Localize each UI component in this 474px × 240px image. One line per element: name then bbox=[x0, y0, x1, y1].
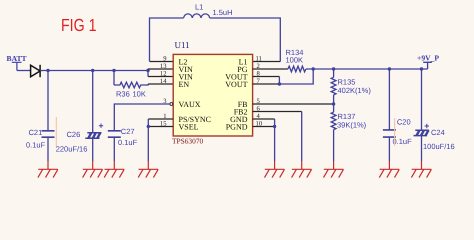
svg-text:100uF/16: 100uF/16 bbox=[423, 142, 455, 151]
node junction VOUT riser bbox=[312, 67, 315, 70]
U11 pin numbers right bbox=[256, 55, 263, 127]
wire VIN vertical pins 13-12 bbox=[147, 69, 149, 77]
wire pin3 VAUX to C27 bbox=[114, 104, 170, 131]
svg-text:C20: C20 bbox=[397, 117, 411, 126]
wire pin5 stub bbox=[253, 103, 334, 105]
wire pin8 stub bbox=[253, 76, 280, 78]
faint pink line bbox=[55, 117, 57, 147]
svg-text:39K(1%): 39K(1%) bbox=[337, 120, 367, 129]
wire VOUT joins bbox=[279, 69, 313, 84]
pin 3 bubble bbox=[170, 103, 173, 106]
svg-text:VSEL: VSEL bbox=[179, 122, 199, 131]
U11 pin names right bbox=[225, 57, 247, 131]
svg-text:U11: U11 bbox=[175, 40, 190, 50]
ground R137 bbox=[324, 161, 344, 178]
wire pin11 stub bbox=[253, 61, 281, 63]
node junction C21 bbox=[46, 69, 49, 72]
svg-text:VAUX: VAUX bbox=[179, 100, 201, 109]
ground C26 bbox=[83, 161, 103, 178]
net BATT off-page connector bbox=[7, 54, 27, 71]
ground FB2 bbox=[292, 161, 312, 178]
svg-text:C26: C26 bbox=[67, 130, 81, 139]
svg-text:+9V_P: +9V_P bbox=[417, 53, 439, 62]
node junction pin7 bbox=[278, 82, 281, 85]
node junction C24 bbox=[420, 67, 423, 70]
capacitor C20 bbox=[383, 69, 412, 161]
wire pin1 stub bbox=[148, 118, 173, 120]
wire FB2 to ground bbox=[301, 112, 303, 162]
wire pin9 stub bbox=[150, 61, 174, 63]
svg-text:0.1uF: 0.1uF bbox=[393, 137, 413, 146]
svg-text:402K(1%): 402K(1%) bbox=[338, 86, 372, 95]
svg-text:EN: EN bbox=[179, 80, 190, 89]
wire output rail bbox=[306, 68, 428, 70]
capacitor C27 bbox=[108, 127, 138, 161]
svg-text:13: 13 bbox=[160, 63, 167, 70]
node junction R36 bbox=[112, 69, 115, 72]
ground VSEL bbox=[138, 161, 158, 178]
node junction R135 bbox=[332, 67, 335, 70]
ground symbols bbox=[38, 161, 432, 178]
power +9V_P bbox=[417, 53, 439, 69]
svg-text:C27: C27 bbox=[121, 127, 135, 136]
wire pin14 stub bbox=[148, 83, 173, 85]
resistor R134 bbox=[253, 48, 306, 72]
resistor R36 bbox=[114, 71, 148, 99]
svg-text:C21: C21 bbox=[29, 128, 43, 137]
svg-text:11: 11 bbox=[256, 55, 262, 62]
svg-text:0.1uF: 0.1uF bbox=[118, 138, 138, 147]
svg-text:PGND: PGND bbox=[226, 122, 248, 131]
wire pin12 stub bbox=[148, 76, 173, 78]
wire pin13 stub bbox=[148, 68, 173, 70]
svg-text:0.1uF: 0.1uF bbox=[26, 140, 46, 149]
node junction C20 bbox=[388, 67, 391, 70]
wire pin15 stub bbox=[148, 126, 173, 128]
wire pin7 stub bbox=[253, 83, 280, 85]
svg-text:FIG 1: FIG 1 bbox=[61, 15, 97, 35]
wire pin10 stub bbox=[253, 126, 275, 128]
node junction FB bbox=[332, 102, 335, 105]
ground GND bbox=[265, 161, 285, 178]
ground C27 bbox=[104, 161, 124, 178]
node junction VIN bbox=[146, 69, 149, 72]
svg-text:C24: C24 bbox=[431, 128, 445, 137]
node junction pin10 bbox=[273, 125, 276, 128]
wire BATT to diode bbox=[17, 70, 31, 72]
svg-text:10K: 10K bbox=[133, 90, 146, 99]
wire pin6 stub bbox=[253, 111, 302, 113]
resistor R135 bbox=[331, 69, 371, 104]
wire PS/SYNC VSEL to ground bbox=[147, 119, 149, 161]
U11 pin names left bbox=[179, 57, 211, 131]
capacitor C26 electrolytic bbox=[56, 71, 103, 162]
svg-text:L1: L1 bbox=[195, 3, 203, 12]
U11 pin numbers left bbox=[160, 55, 167, 127]
svg-text:100K: 100K bbox=[286, 56, 304, 65]
wire input rail bbox=[40, 70, 148, 72]
svg-text:12: 12 bbox=[160, 70, 167, 77]
ground C20 bbox=[379, 161, 399, 178]
svg-text:BATT: BATT bbox=[7, 54, 27, 63]
svg-text:220uF/16: 220uF/16 bbox=[56, 144, 88, 153]
ground C21 bbox=[38, 161, 58, 178]
svg-text:1.5uH: 1.5uH bbox=[213, 8, 233, 17]
svg-text:14: 14 bbox=[160, 78, 167, 85]
capacitor C21 bbox=[26, 71, 55, 162]
op-amp U11 TPS63070 body bbox=[172, 40, 253, 146]
resistor R137 bbox=[331, 104, 366, 161]
svg-text:VOUT: VOUT bbox=[225, 80, 247, 89]
capacitor C24 electrolytic bbox=[414, 69, 455, 161]
svg-text:R36: R36 bbox=[116, 90, 130, 99]
wire pin4 stub bbox=[253, 118, 275, 120]
inductor L1 bbox=[150, 3, 281, 62]
node junction pin15 bbox=[147, 125, 150, 128]
ground C24 bbox=[411, 161, 431, 178]
faint pink line 2 bbox=[394, 118, 396, 146]
diode bbox=[31, 65, 40, 77]
svg-text:TPS63070: TPS63070 bbox=[172, 137, 204, 146]
wire GND PGND to ground bbox=[274, 119, 276, 161]
node junction C26 bbox=[91, 69, 94, 72]
